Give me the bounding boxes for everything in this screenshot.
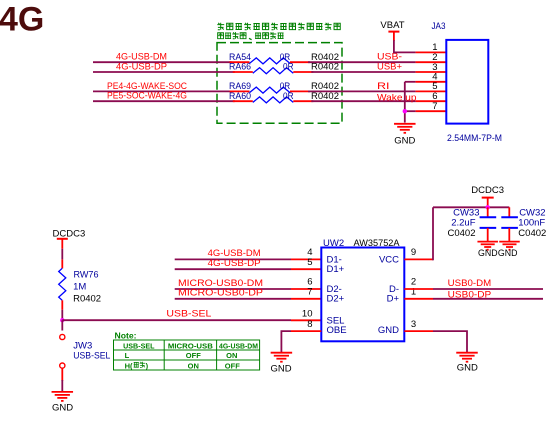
svg-text:5: 5	[307, 257, 312, 268]
wire RW76 to junction	[61, 310, 63, 321]
wire net RI to connector	[308, 90, 416, 92]
connector JA3 pin stub 2	[416, 61, 447, 63]
wire net 4G-USB-DP (to UW2)	[175, 268, 291, 270]
svg-text:USB-SEL: USB-SEL	[73, 350, 110, 361]
svg-text:L: L	[125, 351, 130, 360]
svg-text:R0402: R0402	[311, 91, 339, 102]
svg-text:4G-USB-DP: 4G-USB-DP	[116, 61, 167, 72]
power DCDC3 stub (left)	[61, 239, 63, 249]
svg-text:VBAT: VBAT	[380, 20, 404, 31]
power DCDC3 bar (right)	[482, 197, 494, 199]
capacitor CW33 plates	[480, 216, 497, 218]
svg-text:OBE: OBE	[327, 325, 347, 336]
svg-text:GND: GND	[498, 248, 518, 258]
ground symbol (JA3)	[394, 123, 416, 125]
svg-text:2.54MM-7P-M: 2.54MM-7P-M	[447, 133, 502, 144]
wire net Wake up to connector	[311, 100, 415, 102]
wire net 4G-USB-DM left segment	[93, 61, 232, 63]
jumper JW3 pin2 stub	[61, 368, 63, 381]
svg-text:USB0-DP: USB0-DP	[448, 290, 492, 301]
ground symbol (CW32)	[499, 241, 520, 243]
wire to JA3 pin4	[405, 81, 416, 83]
svg-text:R0402: R0402	[73, 293, 101, 304]
connector JA3 pin stub 7	[416, 110, 447, 112]
svg-text:OFF: OFF	[225, 361, 240, 370]
chip UW2 pin stub 4	[291, 258, 321, 260]
svg-text:OFF: OFF	[186, 351, 201, 360]
capacitor CW32 plates	[501, 216, 518, 218]
svg-text:9: 9	[411, 247, 416, 258]
svg-text:GND: GND	[478, 248, 498, 258]
capacitor CW33 bottom pin	[487, 228, 489, 242]
svg-text:Note:: Note:	[115, 331, 137, 341]
resistor RA69 left pin	[230, 90, 250, 92]
svg-text:VCC: VCC	[379, 254, 399, 265]
svg-text:ON: ON	[226, 351, 237, 360]
wire to JA3 pin7	[405, 110, 416, 112]
resistor RA66 left pin	[233, 71, 253, 73]
wire net USB0-DM	[433, 288, 543, 290]
ground symbol (OBE)	[271, 352, 293, 354]
wire VBAT to JA3 pin1	[393, 51, 416, 53]
wire net USB-SEL	[62, 319, 291, 321]
resistor RA54 body	[250, 58, 291, 64]
svg-text:1M: 1M	[73, 282, 86, 293]
wire net USB0-DP	[433, 298, 543, 300]
power VBAT bar symbol	[388, 31, 399, 33]
connector JA3 pin stub 6	[416, 100, 447, 102]
resistor RA69 body	[250, 87, 291, 93]
svg-text:GND: GND	[394, 136, 415, 147]
svg-text:USB-SEL: USB-SEL	[166, 308, 211, 319]
power VBAT stub	[393, 32, 395, 41]
svg-text:10: 10	[302, 308, 313, 319]
capacitor CW32 bottom pin	[508, 228, 510, 242]
svg-text:C0402: C0402	[448, 228, 476, 239]
wire net PE4-4G-WAKE-SOC left segment	[93, 90, 232, 92]
wire VBAT vertical	[393, 40, 395, 53]
svg-text:7: 7	[307, 287, 312, 298]
wire JW3 to ground	[61, 380, 63, 392]
svg-text:DCDC3: DCDC3	[53, 228, 86, 239]
jumper JW3 pin2 circle	[60, 363, 65, 368]
junction dot (GND/pin7)	[403, 109, 407, 113]
svg-text:4G-USB-DM: 4G-USB-DM	[219, 341, 258, 350]
chip UW2 pin stub 1	[404, 298, 433, 300]
svg-text:DCDC3: DCDC3	[471, 185, 504, 196]
svg-text:R0402: R0402	[311, 62, 339, 73]
svg-text:0R: 0R	[283, 91, 294, 102]
svg-text:MICRO-USB0-DP: MICRO-USB0-DP	[178, 288, 263, 299]
connector JA3 pin stub 4	[416, 81, 447, 83]
power DCDC3 bar (left)	[57, 238, 68, 240]
svg-text:GND: GND	[378, 325, 399, 336]
annotation text line1 (Chinese)	[217, 23, 340, 30]
wire net USB- to connector	[308, 61, 416, 63]
resistor RA66 body	[253, 68, 293, 74]
ground symbol (pin3)	[456, 352, 478, 354]
resistor RW76 top pin	[61, 260, 63, 269]
svg-text:4G: 4G	[0, 1, 44, 39]
capacitor CW32 top pin	[508, 207, 510, 217]
annotation text line2 (Chinese)	[218, 32, 284, 40]
wire net USB+ to connector	[311, 71, 415, 73]
svg-text:RA66: RA66	[229, 62, 251, 73]
chip UW2 pin stub 7	[291, 298, 321, 300]
svg-text:GND: GND	[271, 363, 292, 374]
chip UW2 pin stub 3	[404, 330, 433, 332]
resistor RA60 right pin	[293, 100, 313, 102]
note table grid	[114, 340, 260, 370]
svg-text:8: 8	[307, 319, 312, 330]
wire VCC vertical	[432, 207, 434, 260]
jumper JW3 pin1 circle	[60, 334, 65, 339]
resistor RA66 right pin	[293, 71, 313, 73]
svg-text:RW76: RW76	[74, 270, 99, 281]
chip UW2 pin stub 8	[291, 330, 321, 332]
svg-text:4G-USB-DP: 4G-USB-DP	[208, 258, 261, 269]
svg-text:C0402: C0402	[518, 228, 546, 239]
svg-text:2.2uF: 2.2uF	[451, 217, 475, 228]
chip UW2 pin stub 9	[404, 258, 433, 260]
junction dot (USB-SEL node)	[60, 318, 64, 322]
ground symbol (JW3)	[52, 391, 74, 393]
svg-text:D+: D+	[387, 294, 400, 305]
svg-text:100nF: 100nF	[518, 217, 545, 228]
wire GND vertical (JA3)	[404, 82, 406, 123]
chip UW2 pin stub 6	[291, 288, 321, 290]
svg-text:USB+: USB+	[377, 61, 402, 72]
annotation box (green dashed)	[217, 43, 342, 124]
ground symbol (CW33)	[477, 241, 498, 243]
chip UW2 pin stub 10	[291, 319, 321, 321]
svg-text:GND: GND	[457, 363, 478, 374]
resistor RW76 bottom pin	[61, 300, 63, 310]
wire net 4G-USB-DM (to UW2)	[175, 258, 291, 260]
wire net PE5-SOC-WAKE-4G left segment	[93, 100, 235, 102]
svg-text:USB0-DM: USB0-DM	[448, 278, 492, 289]
svg-text:Wake up: Wake up	[377, 93, 417, 104]
svg-text:D2+: D2+	[327, 294, 345, 305]
chip UW2 pin stub 2	[404, 288, 433, 290]
wire net 4G-USB-DP left segment	[93, 71, 235, 73]
wire OBE elbow	[281, 331, 291, 353]
wire net MICRO-USB0-DM (to UW2)	[175, 288, 291, 290]
wire VCC horizontal	[433, 206, 509, 208]
connector JA3 body	[446, 40, 488, 124]
svg-text:H(: H(	[125, 361, 133, 370]
power DCDC3 stub (right)	[487, 198, 489, 208]
connector JA3 pin stub 1	[416, 51, 447, 53]
svg-text:MICRO-USB: MICRO-USB	[168, 341, 214, 350]
resistor RA69 right pin	[290, 90, 310, 92]
svg-text:0R: 0R	[283, 62, 294, 73]
resistor RA54 left pin	[230, 61, 250, 63]
capacitor CW33 top pin	[487, 207, 489, 217]
wire junction to JW3 pin1	[61, 320, 63, 330]
svg-text:RI: RI	[377, 81, 390, 92]
svg-text:ON: ON	[188, 361, 199, 370]
svg-text:USB-SEL: USB-SEL	[123, 341, 155, 350]
wire GND elbow (pin3)	[433, 331, 467, 353]
connector JA3 pin stub 3	[416, 71, 447, 73]
svg-text:RA60: RA60	[229, 91, 251, 102]
resistor RA54 right pin	[290, 61, 310, 63]
svg-text:AW35752A: AW35752A	[354, 238, 401, 249]
connector JA3 pin stub 5	[416, 90, 447, 92]
resistor RA60 left pin	[233, 100, 253, 102]
resistor RW76 body	[59, 268, 66, 300]
svg-text:D1+: D1+	[327, 264, 345, 275]
svg-text:7: 7	[432, 101, 437, 112]
wire net MICRO-USB0-DP (to UW2)	[175, 298, 291, 300]
svg-text:JA3: JA3	[432, 21, 446, 32]
chip UW2 pin stub 5	[291, 268, 321, 270]
op-chip UW2 body	[321, 248, 404, 342]
wire DCDC3 to RW76	[61, 249, 63, 260]
junction dot (VCC/DCDC3)	[486, 205, 490, 209]
resistor RA60 body	[253, 97, 293, 103]
svg-text:UW2: UW2	[323, 238, 344, 249]
svg-text:PE5-SOC-WAKE-4G: PE5-SOC-WAKE-4G	[107, 91, 187, 102]
svg-text:GND: GND	[52, 402, 73, 413]
svg-text:3: 3	[411, 319, 416, 330]
